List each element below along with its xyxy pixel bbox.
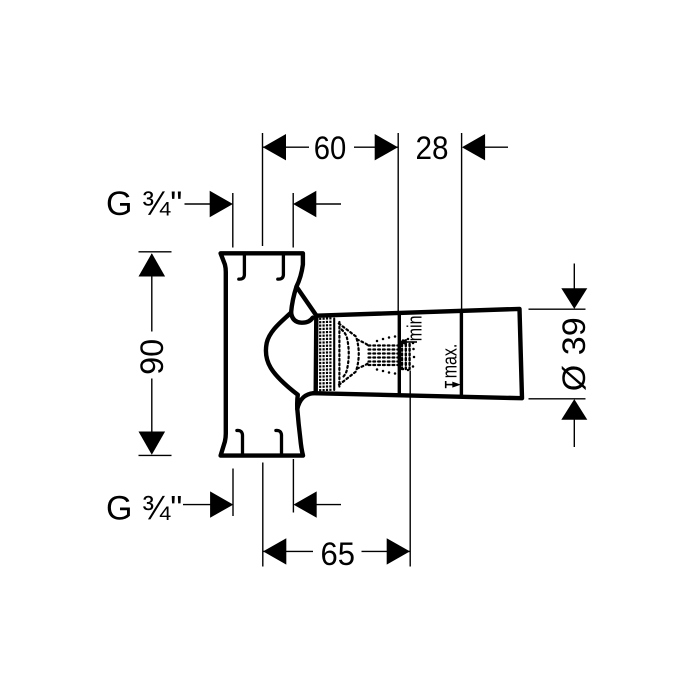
Ø39 top extension line <box>529 308 586 310</box>
dotted vertical line B <box>338 322 340 387</box>
dimension texts <box>106 130 592 572</box>
arrow G3/4 top right (pointing left) <box>293 191 316 217</box>
cone housing outline <box>314 309 523 398</box>
G3/4 bottom ext line right <box>292 459 294 513</box>
arrowheads <box>139 134 588 565</box>
dimension graphics <box>139 133 586 567</box>
valve body outline <box>221 253 303 455</box>
65 left extension (centerline below body) <box>262 463 264 567</box>
dotted spindle row 6 <box>369 364 398 366</box>
90 dimension line <box>151 254 153 332</box>
arrow G3/4 bottom left (pointing right) <box>210 491 233 517</box>
G3/4 top ext line left <box>232 193 234 248</box>
extension line: 60 left (x=262.5) <box>262 133 264 246</box>
scattered fringe dots around spindle <box>376 335 416 375</box>
extension line: 60 right / min (x=398.2) <box>397 133 399 313</box>
svg-text:G ¾": G ¾" <box>106 489 182 527</box>
arrow Ø39 bottom (pointing up) <box>561 399 587 420</box>
arrow Ø39 top (pointing down) <box>561 288 587 309</box>
max leader tail + tick <box>446 384 454 386</box>
arrow 90 bottom (down) <box>139 432 166 455</box>
dotted spindle row 3 <box>369 352 398 354</box>
svg-text:G ¾": G ¾" <box>106 185 182 223</box>
small arrow min (pointing left) <box>398 339 407 345</box>
dotted spindle row 5 <box>369 360 398 362</box>
90 top tick <box>139 251 172 253</box>
teardrop lobe on body right side <box>291 313 313 323</box>
dotted spindle row 2 <box>369 348 398 350</box>
arrow 60 left <box>263 134 286 160</box>
Ø39 dimension tails <box>573 264 575 290</box>
dense stipple band at cone left end <box>319 317 331 391</box>
arrow G3/4 bottom right (pointing left) <box>294 491 317 517</box>
svg-text:max.: max. <box>439 344 461 379</box>
thread hook top-right <box>278 255 284 279</box>
arrow 65 right <box>387 538 410 564</box>
dotted end-cluster columns <box>402 344 410 369</box>
65 dimension line <box>263 550 313 552</box>
arrow 65 left <box>263 538 286 564</box>
svg-text:60: 60 <box>314 130 347 166</box>
solid right boundary of seal band <box>333 319 335 391</box>
G3/4 top ext line right <box>292 193 294 248</box>
slant line from body vertex to cone top-left corner <box>297 287 317 316</box>
dotted spindle row 4 <box>369 356 398 358</box>
max position line across cone (cap edge) <box>460 310 463 395</box>
dotted neck slant bottom <box>357 363 369 369</box>
dimension tail right of 28 <box>484 146 508 148</box>
G3/4 top tail right <box>316 203 342 205</box>
rounded corner from cone bottom into body edge <box>297 393 313 409</box>
small arrow max (pointing right) <box>452 382 461 388</box>
G3/4 bottom ext line left <box>232 469 234 517</box>
svg-text:90: 90 <box>134 339 170 375</box>
G3/4 bottom leader left <box>183 504 211 506</box>
G3/4 bottom tail right <box>316 504 341 506</box>
arrow 90 top (up) <box>139 253 166 276</box>
Ø39 bottom extension line <box>529 398 586 400</box>
65 right extension line <box>409 371 411 567</box>
dotted outer D profile <box>339 324 359 386</box>
dotted neck slant top <box>357 340 369 347</box>
dimension line 60 <box>263 146 309 148</box>
thread hook bottom-right <box>276 430 282 454</box>
svg-text:65: 65 <box>321 536 356 572</box>
dotted spindle row 1 <box>369 344 398 346</box>
svg-text:Ø 39: Ø 39 <box>556 317 592 391</box>
cone left edge <box>314 316 319 393</box>
dotted internals of cartridge <box>334 319 415 391</box>
arrow 60 right <box>375 134 398 160</box>
min leader tail <box>406 341 418 343</box>
min position line across cone <box>398 313 401 395</box>
svg-text:min.: min. <box>404 311 426 341</box>
thread hook bottom-left <box>237 430 243 454</box>
extension line: 28 right / max (x=461.6) <box>461 133 463 310</box>
90 bottom tick <box>139 454 172 456</box>
G3/4 top leader left <box>185 203 212 205</box>
svg-text:28: 28 <box>416 130 449 166</box>
thread hook top-left <box>239 255 245 279</box>
arrow 28 right (outside, pointing left) <box>462 134 485 160</box>
arrow G3/4 top left (pointing right) <box>210 191 233 217</box>
dotted inner arc layer <box>342 330 349 379</box>
